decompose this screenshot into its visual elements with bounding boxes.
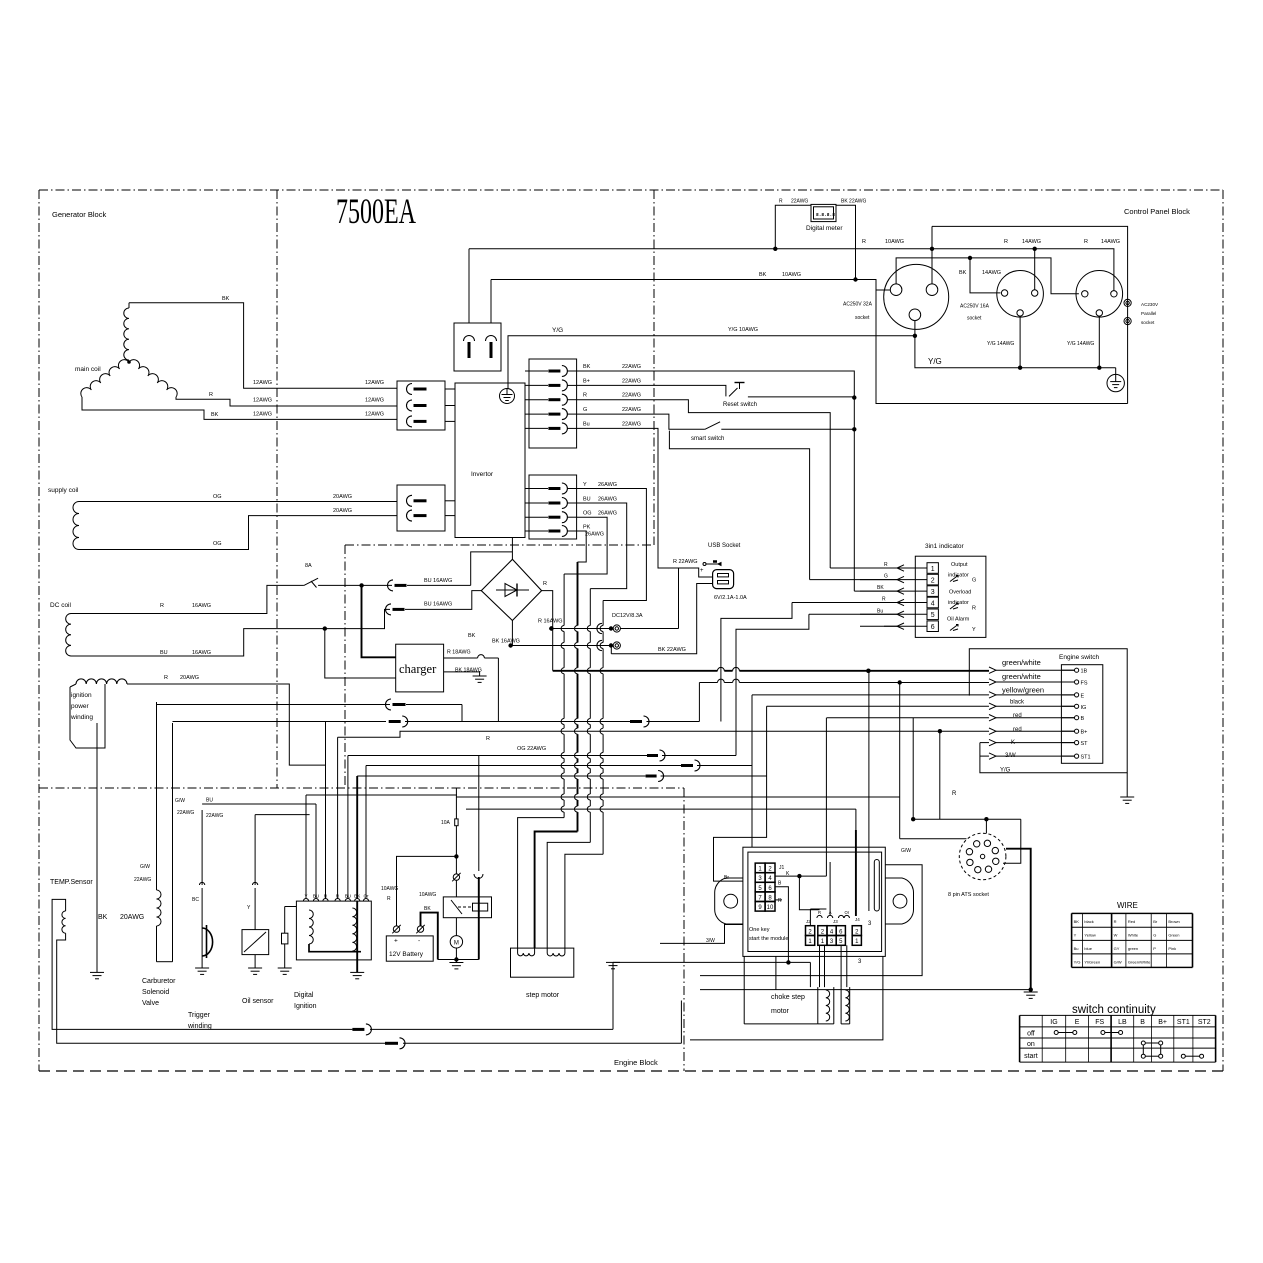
svg-text:ignition: ignition xyxy=(71,692,92,699)
svg-text:AC230V: AC230V xyxy=(1141,302,1159,307)
svg-text:R: R xyxy=(952,791,957,797)
svg-text:Output: Output xyxy=(951,562,968,568)
svg-text:main coil: main coil xyxy=(75,366,101,373)
svg-text:BK: BK xyxy=(1074,919,1080,924)
svg-text:8A: 8A xyxy=(305,563,312,569)
svg-text:Valve: Valve xyxy=(142,1000,159,1007)
svg-text:8.8.8.8: 8.8.8.8 xyxy=(816,212,835,218)
svg-text:Invertor: Invertor xyxy=(471,471,494,478)
svg-text:choke step: choke step xyxy=(771,994,805,1001)
svg-text:Yl/Green: Yl/Green xyxy=(1084,959,1100,964)
svg-text:22AWG: 22AWG xyxy=(622,407,641,413)
svg-text:R: R xyxy=(884,562,888,568)
svg-text:Y/G 10AWG: Y/G 10AWG xyxy=(728,327,758,333)
svg-text:BK: BK xyxy=(583,364,591,370)
svg-text:R: R xyxy=(818,910,821,915)
svg-text:4: 4 xyxy=(931,600,935,607)
svg-text:green/white: green/white xyxy=(1002,658,1041,667)
svg-text:BC: BC xyxy=(192,897,199,903)
svg-text:WIRE: WIRE xyxy=(1117,901,1138,910)
svg-text:Engine Block: Engine Block xyxy=(614,1058,658,1067)
svg-text:OG: OG xyxy=(213,494,222,500)
svg-text:R: R xyxy=(543,581,547,587)
svg-text:switch continuity: switch continuity xyxy=(1072,1004,1156,1016)
svg-text:socket: socket xyxy=(1141,320,1155,325)
svg-text:22AWG: 22AWG xyxy=(622,393,641,399)
svg-text:-: - xyxy=(418,938,420,945)
svg-text:R: R xyxy=(1004,239,1008,245)
svg-text:J4: J4 xyxy=(855,917,860,922)
svg-text:off: off xyxy=(1027,1031,1035,1038)
svg-text:12AWG: 12AWG xyxy=(365,380,384,386)
svg-text:K: K xyxy=(1011,740,1015,746)
svg-text:26AWG: 26AWG xyxy=(598,497,617,503)
svg-text:20AWG: 20AWG xyxy=(333,494,352,500)
svg-text:LB: LB xyxy=(1118,1019,1127,1026)
svg-text:5: 5 xyxy=(931,612,935,619)
svg-text:Y: Y xyxy=(583,482,587,488)
svg-text:Y/G 14AWG: Y/G 14AWG xyxy=(1067,341,1094,347)
svg-text:2: 2 xyxy=(931,577,935,584)
svg-text:BK: BK xyxy=(98,914,108,921)
svg-text:+: + xyxy=(394,938,398,945)
svg-text:Bu: Bu xyxy=(583,421,590,427)
svg-text:OG: OG xyxy=(583,511,592,517)
svg-text:charger: charger xyxy=(399,662,437,676)
svg-text:green/white: green/white xyxy=(1002,672,1041,681)
svg-text:22AWG: 22AWG xyxy=(177,810,194,816)
svg-text:Bu: Bu xyxy=(1074,946,1079,951)
svg-text:G/W: G/W xyxy=(1114,959,1122,964)
svg-text:BK 16AWG: BK 16AWG xyxy=(492,639,520,645)
svg-text:M: M xyxy=(454,941,459,947)
svg-text:yellow/green: yellow/green xyxy=(1002,686,1044,695)
svg-text:FS: FS xyxy=(1095,1019,1104,1026)
svg-text:ST1: ST1 xyxy=(1177,1019,1190,1026)
svg-text:AC250V 16A: AC250V 16A xyxy=(960,304,990,310)
svg-text:power: power xyxy=(71,703,90,710)
svg-text:10A: 10A xyxy=(441,820,451,826)
svg-text:22AWG: 22AWG xyxy=(622,421,641,427)
svg-text:3: 3 xyxy=(931,589,935,596)
svg-text:Generator Block: Generator Block xyxy=(52,210,106,219)
svg-text:Digital: Digital xyxy=(294,992,314,999)
svg-text:22AWG: 22AWG xyxy=(134,877,151,883)
svg-text:BU: BU xyxy=(583,497,591,503)
svg-text:14AWG: 14AWG xyxy=(982,270,1001,276)
svg-text:on: on xyxy=(1027,1041,1035,1048)
svg-text:black: black xyxy=(1010,700,1025,706)
svg-text:red: red xyxy=(1013,713,1022,719)
svg-text:GY: GY xyxy=(1114,946,1120,951)
svg-text:B: B xyxy=(1140,1019,1145,1026)
svg-text:22AWG: 22AWG xyxy=(622,378,641,384)
svg-text:BK: BK xyxy=(959,270,967,276)
svg-text:26AWG: 26AWG xyxy=(598,511,617,517)
svg-text:BK: BK xyxy=(222,296,230,302)
svg-text:R: R xyxy=(387,896,391,902)
svg-text:TEMP.Sensor: TEMP.Sensor xyxy=(50,879,93,886)
svg-text:White: White xyxy=(1128,933,1139,938)
svg-text:OG 22AWG: OG 22AWG xyxy=(517,746,546,752)
svg-text:3/W: 3/W xyxy=(1005,753,1016,759)
svg-text:USB Socket: USB Socket xyxy=(708,543,741,549)
svg-text:22AWG: 22AWG xyxy=(622,364,641,370)
svg-text:Ignition: Ignition xyxy=(294,1003,317,1010)
svg-text:10AWG: 10AWG xyxy=(885,239,904,245)
svg-text:supply coil: supply coil xyxy=(48,487,79,494)
svg-text:Reset switch: Reset switch xyxy=(723,402,757,408)
svg-text:smart switch: smart switch xyxy=(691,436,724,442)
svg-text:BU: BU xyxy=(206,798,213,804)
svg-text:BU: BU xyxy=(160,650,168,656)
svg-text:socket: socket xyxy=(967,316,982,322)
svg-text:10AWG: 10AWG xyxy=(381,886,398,892)
svg-text:J1: J1 xyxy=(779,865,785,871)
svg-text:Green: Green xyxy=(1168,933,1179,938)
svg-text:26AWG: 26AWG xyxy=(585,532,604,538)
svg-text:R: R xyxy=(1084,239,1088,245)
svg-text:AC250V 32A: AC250V 32A xyxy=(843,302,873,308)
svg-text:R: R xyxy=(972,606,976,612)
svg-text:6V/2.1A-1.0A: 6V/2.1A-1.0A xyxy=(714,595,747,601)
svg-text:Green/White: Green/White xyxy=(1128,959,1151,964)
svg-text:G/W: G/W xyxy=(175,798,185,804)
svg-text:Y/G: Y/G xyxy=(552,327,563,334)
svg-text:Engine switch: Engine switch xyxy=(1059,654,1099,661)
svg-text:motor: motor xyxy=(771,1008,790,1015)
svg-text:R 22AWG: R 22AWG xyxy=(673,559,698,565)
svg-text:G: G xyxy=(1153,933,1156,938)
svg-text:14AWG: 14AWG xyxy=(1101,239,1120,245)
svg-text:R: R xyxy=(779,199,783,205)
svg-text:12AWG: 12AWG xyxy=(253,380,272,386)
svg-text:DC coil: DC coil xyxy=(50,602,72,609)
svg-text:+: + xyxy=(700,568,704,574)
svg-text:P: P xyxy=(1153,946,1156,951)
svg-text:R: R xyxy=(160,603,164,609)
svg-text:ST1: ST1 xyxy=(1081,755,1091,761)
svg-text:winding: winding xyxy=(70,714,93,721)
svg-text:BK: BK xyxy=(211,412,219,418)
svg-text:Y/G: Y/G xyxy=(928,357,942,366)
svg-text:G: G xyxy=(884,574,888,580)
svg-text:ST2: ST2 xyxy=(1198,1019,1211,1026)
svg-text:BK 22AWG: BK 22AWG xyxy=(658,647,686,653)
svg-text:12AWG: 12AWG xyxy=(365,412,384,418)
svg-text:1: 1 xyxy=(931,566,935,573)
svg-text:J3: J3 xyxy=(833,919,838,924)
svg-text:12AWG: 12AWG xyxy=(253,412,272,418)
svg-text:10AWG: 10AWG xyxy=(419,892,436,898)
svg-text:R 16AWG: R 16AWG xyxy=(538,619,563,625)
svg-text:One key: One key xyxy=(749,927,770,933)
svg-text:BK 18AWG: BK 18AWG xyxy=(455,668,482,674)
svg-text:16AWG: 16AWG xyxy=(192,603,211,609)
svg-text:BK: BK xyxy=(424,906,431,912)
svg-text:16AWG: 16AWG xyxy=(192,650,211,656)
svg-text:DC12V/8.3A: DC12V/8.3A xyxy=(612,613,643,619)
svg-text:Carburetor: Carburetor xyxy=(142,978,176,985)
svg-text:6: 6 xyxy=(931,624,935,631)
svg-text:B: B xyxy=(1081,716,1085,722)
svg-text:G: G xyxy=(583,407,587,413)
svg-text:ST: ST xyxy=(1081,741,1089,747)
svg-text:22AWG: 22AWG xyxy=(206,813,223,819)
svg-text:red: red xyxy=(1013,727,1022,733)
svg-text:R 18AWG: R 18AWG xyxy=(447,650,471,656)
svg-text:start the module: start the module xyxy=(749,936,788,942)
svg-text:Y: Y xyxy=(1074,933,1077,938)
svg-text:Parallel: Parallel xyxy=(1141,311,1156,316)
svg-text:8 pin ATS socket: 8 pin ATS socket xyxy=(948,892,989,898)
svg-text:Br: Br xyxy=(1153,919,1158,924)
svg-text:B+: B+ xyxy=(1158,1019,1167,1026)
svg-text:R: R xyxy=(209,392,213,398)
svg-text:10AWG: 10AWG xyxy=(782,272,801,278)
svg-text:Red: Red xyxy=(1128,919,1135,924)
svg-text:12V Battery: 12V Battery xyxy=(389,951,424,958)
svg-text:R: R xyxy=(486,736,490,742)
svg-text:W: W xyxy=(1114,933,1118,938)
svg-text:start: start xyxy=(1024,1053,1038,1060)
svg-text:OG: OG xyxy=(213,541,222,547)
svg-text:E: E xyxy=(1075,1019,1080,1026)
svg-text:G: G xyxy=(972,578,976,584)
svg-text:Trigger: Trigger xyxy=(188,1012,211,1019)
svg-text:1B: 1B xyxy=(1081,669,1088,675)
svg-text:R: R xyxy=(1114,919,1117,924)
svg-text:E: E xyxy=(1081,693,1085,699)
svg-text:green: green xyxy=(1128,946,1138,951)
svg-text:Oil sensor: Oil sensor xyxy=(242,998,274,1005)
svg-text:Or: Or xyxy=(844,910,849,915)
svg-text:3in1 indicator: 3in1 indicator xyxy=(925,543,964,550)
svg-text:BK 22AWG: BK 22AWG xyxy=(841,199,866,205)
svg-text:12AWG: 12AWG xyxy=(365,398,384,404)
svg-text:PK: PK xyxy=(583,525,591,531)
svg-text:R: R xyxy=(778,898,782,904)
svg-text:blue: blue xyxy=(1084,946,1092,951)
svg-text:socket: socket xyxy=(855,315,870,321)
svg-text:Overload: Overload xyxy=(949,590,971,596)
svg-text:winding: winding xyxy=(187,1023,212,1030)
svg-text:G/W: G/W xyxy=(140,864,150,870)
svg-text:Y/G: Y/G xyxy=(1074,959,1081,964)
svg-text:7500EA: 7500EA xyxy=(336,191,416,231)
svg-text:Y/G: Y/G xyxy=(1000,768,1011,774)
svg-text:BK: BK xyxy=(468,633,476,639)
svg-text:Digital meter: Digital meter xyxy=(806,225,843,232)
svg-text:BK: BK xyxy=(877,585,884,591)
svg-text:R: R xyxy=(583,393,587,399)
svg-text:10: 10 xyxy=(767,905,774,911)
svg-text:Oil Alarm: Oil Alarm xyxy=(947,617,970,623)
svg-text:R: R xyxy=(862,239,866,245)
svg-text:IG: IG xyxy=(1081,705,1087,711)
svg-text:20AWG: 20AWG xyxy=(333,508,352,514)
svg-text:22AWG: 22AWG xyxy=(791,199,808,205)
svg-text:12AWG: 12AWG xyxy=(253,398,272,404)
svg-text:14AWG: 14AWG xyxy=(1022,239,1041,245)
svg-text:G/W: G/W xyxy=(901,848,911,854)
svg-text:BK: BK xyxy=(759,272,767,278)
svg-text:Brown: Brown xyxy=(1168,919,1179,924)
svg-text:B+: B+ xyxy=(1081,730,1088,736)
svg-text:B+: B+ xyxy=(583,378,590,384)
svg-text:Y: Y xyxy=(972,627,976,633)
svg-text:BU 16AWG: BU 16AWG xyxy=(424,578,452,584)
svg-text:Pink: Pink xyxy=(1168,946,1176,951)
svg-text:Solenoid: Solenoid xyxy=(142,989,169,996)
svg-text:step motor: step motor xyxy=(526,992,560,999)
svg-text:26AWG: 26AWG xyxy=(598,482,617,488)
svg-text:20AWG: 20AWG xyxy=(180,675,199,681)
svg-text:Control Panel Block: Control Panel Block xyxy=(1124,207,1190,216)
svg-text:Y/G 14AWG: Y/G 14AWG xyxy=(987,341,1014,347)
svg-text:3/W: 3/W xyxy=(706,938,715,944)
svg-text:Yellow: Yellow xyxy=(1084,933,1096,938)
svg-text:IG: IG xyxy=(1050,1019,1057,1026)
svg-text:black: black xyxy=(1084,919,1093,924)
svg-text:R: R xyxy=(164,675,168,681)
svg-text:Bu: Bu xyxy=(877,608,883,614)
svg-text:FS: FS xyxy=(1081,681,1088,687)
svg-text:20AWG: 20AWG xyxy=(120,914,144,921)
svg-text:R: R xyxy=(882,597,886,603)
svg-text:BU 16AWG: BU 16AWG xyxy=(424,602,452,608)
